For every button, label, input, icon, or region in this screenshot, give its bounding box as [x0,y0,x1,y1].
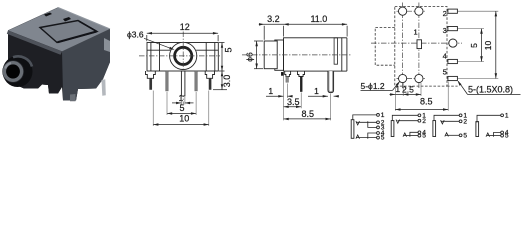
footprint vertical centerline col2 [418,3,420,90]
footprint vertical centerline col1 [402,3,404,90]
schematic 2 terminal 1 [418,114,421,117]
schematic 3 tip contact V [441,120,445,124]
dim 3.0 line [221,71,223,90]
svg-text:5: 5 [505,133,509,140]
side view flange [275,40,284,70]
label underline [468,93,521,95]
svg-text:1: 1 [179,93,184,103]
svg-text:2.5: 2.5 [402,84,414,94]
schematic 4 wire terminal 5 [487,135,501,137]
footprint barrel protrusion (dashed) [375,27,395,65]
svg-text:1: 1 [381,112,385,119]
3D body top face [8,8,110,52]
side view pin A [286,77,289,83]
schematic 3 wire to terminal 1 [434,115,459,121]
dim 1 left arrows (side) [266,95,284,97]
dim 5 bottom extension lines [166,92,168,115]
front view body outline [147,43,218,72]
schematic 4 plug bar [476,122,479,137]
front view pin 2 [166,71,169,91]
schematic 1 wire terminal 3 with junction [368,121,377,127]
front view center pin 3 [181,71,185,96]
svg-text:5: 5 [381,135,385,142]
dim 12 extension lines [146,35,148,41]
dia 3.6 leader [144,38,173,49]
schematic 2 ring contact caret [403,133,407,137]
schematic 3 plug bar [433,121,436,137]
3D barrel ring [4,63,21,81]
front view inner left vertical [159,43,161,72]
side view pin B tab [298,71,305,76]
footprint body outline (hidden/dashed) [395,7,447,87]
front view right plate line [214,43,216,72]
front view right pin (pin R) [209,78,211,89]
svg-text:12: 12 [180,22,190,32]
schematic 1 terminal 1 [377,114,380,117]
side view pin C (shield tube) [328,71,334,93]
front view left plate line [150,43,152,72]
footprint top holes row centerline [397,10,426,12]
dim 3.0 extension lines [213,89,227,91]
hole top-mid (dia 1.2) [415,7,423,15]
svg-text:5: 5 [422,133,426,140]
schematic 4 wire terminal 4 with junction [494,133,501,137]
footprint bottom extension lines [394,88,396,111]
3D photo of 3.5mm jack socket: body silhouette [8,8,110,101]
3D barrel outer cylinder [3,56,33,87]
schematic 1 ring contact caret [356,135,360,139]
3D top recess near wall shadow [79,21,97,31]
dim dia 6 extension lines [254,40,263,42]
footprint bottom dim line 1/2.5 [390,93,422,95]
hole mid-right (dia 1.2) [449,39,457,47]
front view barrel inner circle (hole) [175,47,192,64]
schematic 1 wire terminal 2 [356,121,377,123]
3D right-side lug [104,38,110,52]
schematic 1 terminal 4 [377,132,380,135]
dim 1 right arrows (side) [308,95,328,97]
front view barrel outer circle [170,42,197,69]
front view vertical centerline [182,32,184,105]
hole top-left (dia 1.2) [399,7,407,15]
svg-text:5: 5 [469,43,479,48]
schematic 3 terminal 2 [459,120,462,123]
svg-text:10: 10 [483,41,493,51]
schematic 2 terminal 4 [418,131,421,134]
3D barrel face outer edge [2,60,24,82]
dim 5 vertical line (pads) [481,29,483,62]
side view barrel [264,41,277,69]
dim 10 extension lines [152,91,154,127]
schematic 1 tip contact V [356,121,360,125]
svg-text:11.0: 11.0 [310,14,327,24]
dim 1 arrows (front) [172,102,181,104]
svg-text:5-ϕ1.2: 5-ϕ1.2 [361,81,385,91]
dim 5 vertical (pads) extension lines [458,28,484,30]
pad 3 [448,27,458,31]
3D front face shading [8,31,62,94]
label 5-dia1.2 underline [361,89,393,91]
side view pin B [300,77,302,92]
dim 1 left extension line [286,84,288,99]
svg-text:1: 1 [268,86,273,96]
front view left tab [146,71,156,78]
side view right plate [346,38,348,71]
3D top notch marks [44,13,52,17]
svg-text:ϕ3.6: ϕ3.6 [127,30,144,40]
svg-text:2: 2 [422,118,426,125]
pad 2 [448,9,458,13]
front view inner right vertical [205,43,207,72]
dim 3.2 / 11.0 line [259,23,347,25]
3D body right face [62,29,110,101]
front view mid horizontal left [147,49,170,51]
front view right tab [205,71,214,78]
leader 5-(1.5X0.8) [458,81,467,94]
schematic 2 wire terminal 4 with junction [410,132,418,136]
dim 3.2/11.0 extension lines [263,26,265,40]
svg-text:5: 5 [179,103,184,113]
dim 1 extension lines [180,97,182,105]
svg-text:1: 1 [395,84,400,94]
schematic 3 wire terminal 5 [446,134,460,136]
svg-text:1: 1 [314,86,319,96]
side view notch at body bottom [281,72,283,75]
pad 5 [448,76,458,80]
dim 5 right line [221,43,223,72]
svg-text:1: 1 [505,112,509,119]
svg-text:8.5: 8.5 [420,96,433,106]
schematic 4 wire to terminal 1 [477,115,501,122]
schematic 2 wire terminal 2 [398,120,419,122]
schematic 4 terminal 4 [501,131,504,134]
front view horizontal centerline [139,55,220,57]
svg-text:1: 1 [414,28,418,37]
svg-text:2: 2 [443,9,447,18]
svg-text:8.5: 8.5 [301,109,314,119]
schematic 1 wire to terminal 1 [353,115,377,120]
3D front top bevel [7,31,62,55]
front view mid horizontal right [196,49,218,51]
schematic 2 wire terminal 5 [404,135,418,137]
dim 8.5 extension lines (side) [283,73,285,121]
schematic 2 plug bar [391,121,394,137]
svg-text:3: 3 [443,26,447,35]
dim 10 vertical line [495,11,497,78]
front view left pin (pin L) [150,78,152,89]
dim 8.5 line (side) [284,118,331,120]
dim 12 line [147,32,218,34]
svg-text:5: 5 [223,47,233,52]
dim 10 line [153,124,209,126]
schematic 1 wire terminal 5 [356,137,377,139]
dim 10 vertical extension lines [458,10,498,12]
side view pin C inner stripe [329,71,332,91]
svg-text:5-(1.5X0.8): 5-(1.5X0.8) [468,85,513,95]
3D barrel collar at body [13,56,32,66]
side view body [284,38,342,71]
pad 4 [448,59,458,63]
front view pin 4 [195,71,198,91]
svg-text:ϕ6: ϕ6 [244,52,254,62]
3D barrel ring highlight [5,63,11,69]
pad 1 (1.5x0.8 vertical) [417,40,422,49]
schematic 2 tip contact V [396,120,400,124]
footprint bottom edge dashed extension [447,85,458,87]
schematic 1 terminal 5 [377,136,380,139]
dim 3.5 extension line pinB [300,93,302,109]
side view pin A tab [285,71,291,76]
schematic 2 terminal 5 [418,134,421,137]
hole bottom-left (dia 1.2) [399,74,407,82]
schematic 2 wire to terminal 1 [392,115,418,121]
schematic 1 terminal 2 [377,121,380,124]
svg-text:3.0: 3.0 [222,75,232,88]
3D barrel hole [6,65,20,79]
schematic 2 terminal 2 [418,119,421,122]
dim 5 right extension lines [219,42,225,44]
svg-text:5: 5 [463,132,467,139]
side view centerline [242,54,352,56]
schematic 3 wire terminal 2 [441,120,459,122]
3D right pin [102,79,106,96]
dim dia 6 line [256,41,258,69]
dim 8.5 line (footprint) [395,109,448,111]
schematic 4 terminal 5 [501,134,504,137]
schematic 1 terminal 3 [377,126,380,129]
schematic 4 terminal 1 [501,114,504,117]
schematic 3 terminal 1 [459,114,462,117]
schematic 1 plug bar [351,120,354,139]
schematic 3 terminal 5 [459,134,462,137]
schematic 1 wire terminal 4 with junction [368,133,377,139]
svg-text:3.5: 3.5 [287,97,300,107]
hole bottom-mid (dia 1.2) [415,74,423,82]
footprint bottom holes row centerline [397,78,426,80]
schematic 4 ring contact caret [486,133,490,137]
dim 3.5 line [284,106,302,108]
3D top recess floor [40,21,97,43]
svg-text:4: 4 [443,52,447,61]
side view internal slot [334,38,337,64]
schematic 3 ring contact caret [445,133,449,137]
svg-text:10: 10 [179,113,189,123]
3D foot pin tip [70,94,76,101]
dim 5 bottom line [167,112,196,114]
3D top back edge highlight [58,8,110,30]
svg-text:3.2: 3.2 [267,14,280,24]
svg-text:2: 2 [463,118,467,125]
leader 5-dia1.2 [393,82,400,91]
footprint horizontal centerline mid [371,42,462,44]
svg-text:5: 5 [443,68,447,77]
